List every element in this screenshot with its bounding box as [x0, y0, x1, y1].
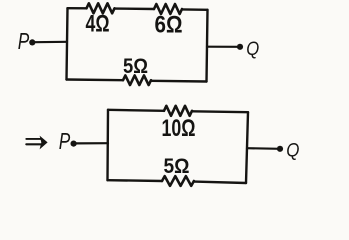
- wire bottom-left segment (top circuit): [67, 78, 124, 81]
- wire right rail (top circuit): [207, 10, 208, 82]
- wire P to left rail (top circuit): [35, 41, 68, 44]
- wire bottom-right segment (bottom circuit): [194, 182, 246, 183]
- resistor 6Ω: [154, 4, 182, 14]
- wire top-left segment (bottom circuit): [108, 110, 164, 111]
- wire P to left rail (bottom circuit): [76, 142, 108, 144]
- wire right rail to Q (bottom circuit): [247, 147, 280, 150]
- svg-text:Q: Q: [286, 139, 299, 161]
- svg-text:10Ω: 10Ω: [162, 115, 196, 142]
- wire top-right segment (bottom circuit): [192, 110, 248, 113]
- svg-text:Q: Q: [246, 38, 259, 60]
- svg-text:P: P: [59, 128, 71, 154]
- node Q (top circuit): [237, 38, 259, 60]
- wire bottom-right segment (top circuit): [151, 80, 207, 83]
- wire between 4Ω and 6Ω: [115, 7, 155, 10]
- svg-text:P: P: [18, 28, 30, 54]
- node P (top circuit): [18, 28, 36, 54]
- wire top-right segment (top circuit): [182, 8, 208, 11]
- wire bottom-left segment (bottom circuit): [108, 179, 163, 182]
- wire top-left segment (top circuit): [68, 7, 87, 10]
- svg-text:5Ω: 5Ω: [164, 154, 190, 178]
- node Q (bottom circuit): [277, 139, 300, 161]
- wire left rail (bottom circuit): [106, 110, 109, 180]
- svg-text:4Ω: 4Ω: [86, 11, 110, 38]
- resistor 10Ω: [164, 106, 192, 116]
- node P (bottom circuit): [59, 128, 77, 154]
- svg-text:5Ω: 5Ω: [123, 54, 148, 78]
- wire right rail (bottom circuit): [246, 112, 248, 183]
- resistor 5Ω (top circuit): [123, 75, 151, 85]
- wire left rail (top circuit): [67, 8, 68, 79]
- svg-text:6Ω: 6Ω: [155, 12, 183, 39]
- implies arrow: [26, 136, 47, 150]
- resistor 4Ω: [87, 3, 115, 13]
- resistor 5Ω (bottom circuit): [162, 176, 194, 186]
- wire right rail to Q (top circuit): [207, 46, 240, 48]
